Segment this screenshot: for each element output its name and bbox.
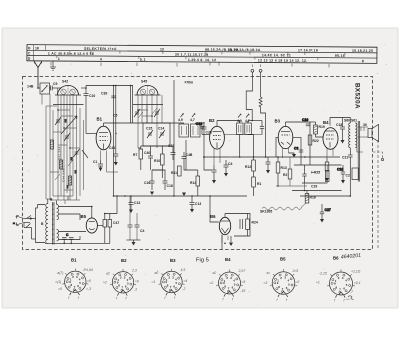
IF transformer 2	[225, 114, 263, 135]
svg-text:C14: C14	[158, 127, 164, 131]
tick marks below table	[51, 62, 329, 68]
svg-text:2,07: 2,07	[238, 269, 246, 273]
svg-text:≈0: ≈0	[58, 287, 62, 291]
osc coil base bar	[133, 104, 163, 106]
svg-text:R24: R24	[252, 221, 258, 225]
transformer bottom caps	[62, 233, 74, 243]
dial cord SK1365	[260, 203, 306, 214]
ground B6	[229, 243, 233, 247]
svg-text:S43.S44: S43.S44	[58, 146, 62, 160]
svg-text:Fig 5: Fig 5	[196, 258, 209, 264]
svg-text:14.4C 14. 5C 21: 14.4C 14. 5C 21	[262, 53, 291, 57]
svg-text:C16: C16	[302, 118, 308, 122]
ground C45	[132, 242, 136, 246]
resistor R25	[311, 165, 329, 183]
svg-text:≈2: ≈2	[103, 280, 107, 284]
tube socket B3	[152, 268, 188, 300]
svg-text:C18: C18	[336, 123, 342, 127]
svg-text:B2: B2	[121, 258, 127, 263]
capacitor C45	[127, 213, 145, 240]
svg-text:+2,1Ω: +2,1Ω	[351, 270, 361, 274]
ground C41	[114, 162, 118, 166]
svg-text:BX520A: BX520A	[354, 83, 361, 109]
bank outer loop wire	[46, 106, 57, 199]
capacitor C42	[224, 160, 233, 173]
capacitor C38	[202, 122, 212, 140]
resistor R11	[171, 166, 181, 176]
svg-text:C9: C9	[53, 82, 57, 86]
dashed stub to terminal	[373, 152, 383, 158]
svg-text:≈4: ≈4	[184, 279, 188, 283]
bank cross contacts	[50, 109, 80, 190]
tube socket B5	[264, 269, 300, 302]
tube B5 rectifier	[81, 207, 104, 234]
electrolytic C46	[103, 214, 107, 244]
HT riser	[105, 196, 117, 214]
svg-text:2,3: 2,3	[131, 268, 137, 272]
mains switch	[13, 216, 36, 240]
resistor R16b	[305, 191, 316, 204]
svg-text:≈,3: ≈,3	[86, 287, 91, 291]
svg-text:≈2: ≈2	[210, 281, 214, 285]
bottom return line	[45, 242, 110, 244]
svg-text:C13: C13	[134, 201, 140, 205]
resistor R20	[283, 157, 292, 186]
schematic dashed border	[23, 77, 373, 250]
svg-text:C39: C39	[101, 92, 107, 96]
osc bank wires	[138, 95, 162, 148]
svg-text:4,5: 4,5	[181, 268, 186, 272]
svg-text:≈: ≈	[13, 222, 15, 226]
capacitor C4B	[182, 152, 193, 164]
svg-text:a0: a0	[155, 271, 159, 275]
svg-text:B1: B1	[97, 117, 103, 122]
pickup terminals	[246, 65, 265, 158]
svg-text:C40: C40	[144, 151, 150, 155]
mid horizontal wire	[203, 156, 340, 158]
svg-text:C4B: C4B	[186, 153, 193, 157]
B plus riser	[67, 196, 69, 200]
capacitor C44	[128, 196, 133, 240]
tube socket B6	[316, 269, 361, 302]
svg-text:C1: C1	[93, 160, 97, 164]
svg-text:a2: a2	[213, 271, 217, 275]
tuning arrow	[61, 116, 77, 134]
svg-text:B6: B6	[210, 214, 216, 219]
svg-text:C33: C33	[196, 122, 202, 126]
capacitor C13a	[129, 196, 141, 210]
svg-text:-2,15: -2,15	[319, 272, 327, 276]
antenna	[34, 62, 42, 89]
svg-text:S42: S42	[62, 80, 68, 84]
svg-text:8: 8	[362, 59, 364, 63]
capacitor C10	[81, 88, 95, 134]
earth terminal	[50, 61, 56, 70]
capacitor C39	[111, 96, 115, 98]
svg-text:30: 30	[363, 123, 367, 127]
svg-text:C44.S45: C44.S45	[62, 168, 66, 182]
IF transformer 1	[178, 114, 200, 138]
B1 grid wire	[86, 133, 96, 135]
capacitor C16b	[302, 118, 310, 126]
B2 grid wire	[202, 134, 210, 136]
rail risers	[86, 86, 133, 197]
handwritten mark	[348, 296, 354, 300]
power transformer	[41, 202, 59, 245]
speaker	[358, 123, 379, 142]
B4 cathode resistor	[325, 158, 329, 178]
resistor R24	[240, 214, 258, 237]
detector diode caps	[266, 157, 271, 170]
svg-text:,3: ,3	[134, 287, 137, 291]
svg-text:R2: R2	[283, 173, 287, 177]
svg-text:≈2: ≈2	[296, 280, 300, 284]
tube socket B2	[103, 268, 139, 300]
svg-text:≈≈: ≈≈	[346, 298, 350, 302]
svg-text:≈1: ≈1	[316, 281, 320, 285]
dial scale table	[27, 45, 377, 64]
svg-text:C15: C15	[146, 127, 152, 131]
tube B1	[96, 117, 111, 161]
svg-text:S45: S45	[141, 80, 147, 84]
svg-text:≈0,1: ≈0,1	[354, 281, 361, 285]
svg-text:R13: R13	[281, 166, 287, 170]
capacitor C21	[342, 155, 353, 196]
box C23	[346, 168, 359, 180]
transformer primary bottom	[349, 148, 351, 155]
svg-text:a(7): a(7)	[57, 271, 63, 275]
wire y186	[276, 185, 307, 187]
top rail	[86, 85, 133, 87]
antenna coil S42 dome	[55, 80, 81, 96]
svg-text:⊢R25: ⊢R25	[311, 170, 320, 175]
svg-text:12 13 12 4 18 19 14 12. 12.: 12 13 12 4 18 19 14 12. 12.	[258, 58, 308, 62]
svg-text:R10: R10	[154, 159, 160, 163]
B2 cathode	[212, 165, 217, 180]
resistor R19 link to B4 grid	[315, 122, 317, 125]
svg-text:C4: C4	[228, 162, 232, 166]
wire y183	[302, 182, 327, 184]
bank bottom joins	[50, 196, 80, 204]
B1 heater wire	[107, 160, 119, 172]
wire y190.5	[292, 190, 342, 192]
svg-text:R19: R19	[319, 125, 325, 129]
svg-text:C13: C13	[195, 202, 201, 206]
svg-text:C10: C10	[337, 168, 343, 172]
coil S46	[50, 140, 53, 149]
svg-text:C47: C47	[113, 221, 119, 225]
svg-text:C3: C3	[294, 147, 298, 151]
capacitor C41	[109, 146, 118, 162]
switch S48	[27, 83, 50, 105]
svg-text:C4: C4	[140, 229, 144, 233]
resistor R22	[308, 135, 319, 145]
svg-text:C41: C41	[109, 146, 115, 150]
auxiliary dashed line right	[377, 140, 379, 250]
svg-text:4: 4	[100, 57, 102, 61]
svg-text:4,9: 4,9	[178, 118, 183, 122]
transformer top leads	[48, 199, 57, 205]
svg-text:R7: R7	[133, 153, 137, 157]
resistor R12	[245, 150, 255, 177]
svg-text:1: 1	[58, 57, 60, 61]
oscillator coil S45 dome	[135, 80, 161, 96]
band switch bank wires	[50, 94, 84, 200]
svg-text:R22: R22	[313, 139, 319, 143]
wires transformer area	[357, 148, 363, 152]
osc bank contacts	[137, 105, 157, 124]
tube B3	[275, 119, 293, 159]
svg-text:≠70m: ≠70m	[185, 81, 194, 85]
svg-text:R12: R12	[245, 165, 251, 169]
svg-text:C16: C16	[144, 181, 150, 185]
ground cluster	[150, 192, 154, 196]
capacitor C27	[320, 204, 331, 219]
svg-text:2≈5: 2≈5	[292, 269, 299, 273]
svg-text:≈(1): ≈(1)	[55, 280, 61, 284]
svg-text:B3: B3	[275, 119, 281, 124]
B3 diode line	[293, 137, 301, 165]
svg-text:13: 13	[160, 47, 164, 51]
svg-text:95.16: 95.16	[335, 54, 345, 58]
B4 plate to transformer	[330, 118, 350, 124]
B2 plate to IF2	[217, 121, 240, 124]
tube socket B4	[210, 269, 246, 302]
svg-text:R1: R1	[257, 182, 261, 186]
svg-text:≈3: ≈3	[264, 281, 268, 285]
svg-text:,15: ,15	[241, 289, 246, 293]
mains plug	[16, 216, 30, 226]
svg-text:5. 1: 5. 1	[140, 58, 146, 62]
svg-text:C18: C18	[167, 184, 173, 188]
power transformer primary box	[36, 205, 46, 243]
svg-text:,2: ,2	[182, 287, 185, 291]
svg-text:,7: ,7	[350, 290, 353, 294]
capacitor C18	[336, 118, 345, 141]
svg-text:4,7: 4,7	[190, 118, 195, 122]
svg-text:a≈: a≈	[267, 271, 271, 275]
tuning indicator B6	[210, 214, 231, 244]
svg-text:14B: 14B	[27, 85, 34, 89]
svg-text:18: 18	[35, 46, 39, 50]
svg-text:B2: B2	[209, 118, 215, 123]
svg-text:R14: R14	[190, 181, 196, 185]
svg-text:≈5: ≈5	[242, 280, 246, 284]
svg-text:SELEKTERI.I?±A: SELEKTERI.I?±A	[84, 47, 117, 51]
svg-text:C21: C21	[342, 156, 348, 160]
output transformer S60 S61	[344, 119, 360, 182]
capacitor C40	[144, 146, 153, 170]
wire y165	[294, 164, 342, 166]
svg-text:17.16./F.18: 17.16./F.18	[298, 48, 318, 52]
B1 cathode parts	[93, 160, 103, 171]
B1 plate line to IF1	[104, 123, 184, 124]
small contact blobs	[65, 119, 77, 189]
tube B2	[209, 118, 224, 165]
IF2 secondary down	[239, 135, 241, 158]
svg-text:2½,64: 2½,64	[82, 268, 93, 272]
trimmer capacitors in bank	[55, 117, 88, 158]
tube socket B1	[55, 268, 93, 300]
B3 plate rail	[286, 122, 311, 165]
svg-text:15.18.21.25: 15.18.21.25	[352, 49, 373, 53]
svg-text:C29: C29	[311, 185, 317, 189]
svg-text:C2: C2	[346, 174, 350, 178]
capacitor C16 pair	[144, 176, 173, 190]
resistor R10	[154, 146, 164, 178]
ground B1	[99, 168, 103, 172]
B3 cathode ground	[289, 153, 295, 154]
svg-text:≈1: ≈1	[152, 280, 156, 284]
coil base bar	[53, 104, 84, 106]
padder box	[143, 123, 170, 146]
svg-text:a2: a2	[106, 271, 110, 275]
svg-text:C27: C27	[325, 208, 331, 212]
capacitor C10r	[337, 165, 345, 180]
B3 grid	[276, 137, 278, 157]
heater wires to B5	[58, 207, 91, 240]
screen feed vertical	[173, 80, 175, 196]
resistor R19	[314, 125, 325, 134]
capacitor C17	[168, 144, 176, 160]
svg-text:≈0: ≈0	[135, 279, 139, 283]
svg-text:B5: B5	[280, 257, 286, 262]
resistor R13	[276, 157, 287, 187]
svg-text:30 1.7.11.15.17.18: 30 1.7.11.15.17.18	[175, 53, 209, 57]
capacitor C33	[196, 122, 204, 135]
svg-text:≈0: ≈0	[87, 279, 91, 283]
svg-text:R16: R16	[310, 196, 316, 200]
B6 wiring box	[210, 196, 250, 242]
tube B4	[323, 118, 338, 159]
resistor R7	[133, 146, 143, 170]
trimmer C12	[134, 109, 160, 117]
svg-text:SK1365: SK1365	[260, 210, 272, 214]
resistor R18	[252, 177, 262, 196]
coil S43	[60, 160, 63, 169]
svg-text:B4: B4	[225, 257, 231, 262]
capacitor C28	[302, 165, 306, 183]
resistor R14	[190, 170, 200, 196]
svg-text:C10: C10	[89, 94, 95, 98]
capacitor C13b	[190, 196, 202, 209]
svg-text:1.29.4 8. 16. 12: 1.29.4 8. 16. 12	[188, 58, 216, 62]
coil S44	[69, 176, 72, 185]
svg-text:B5: B5	[81, 214, 87, 219]
svg-text:98.15.2A./B.1B.2A: 98.15.2A./B.1B.2A	[205, 48, 239, 52]
electrolytic C47	[108, 214, 119, 244]
svg-text:1 AC 40.8.5m.8 12.4 5 5E: 1 AC 40.8.5m.8 12.4 5 5E	[48, 52, 95, 56]
bus B+	[114, 195, 248, 197]
wire antenna to dome	[58, 87, 62, 89]
capacitor C9	[38, 82, 58, 91]
svg-text:B1: B1	[71, 258, 77, 263]
capacitor C34	[260, 121, 264, 135]
svg-text:R11: R11	[171, 171, 177, 175]
capacitor C37	[294, 147, 303, 153]
svg-text:B6: B6	[333, 256, 339, 261]
wire links cluster	[138, 140, 212, 176]
